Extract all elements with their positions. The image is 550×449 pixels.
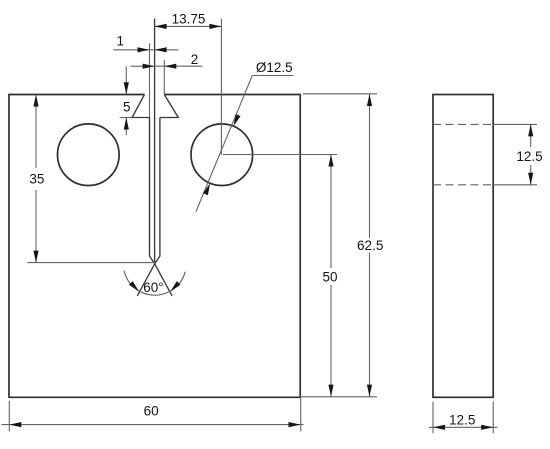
svg-text:60°: 60° (143, 280, 163, 295)
svg-text:5: 5 (123, 100, 131, 115)
svg-text:50: 50 (322, 270, 337, 285)
svg-text:35: 35 (29, 172, 44, 187)
svg-text:12.5: 12.5 (516, 149, 542, 164)
svg-text:1: 1 (116, 34, 124, 49)
svg-text:62.5: 62.5 (357, 238, 383, 253)
svg-text:13.75: 13.75 (172, 11, 206, 26)
svg-text:12.5: 12.5 (449, 413, 475, 428)
svg-text:Ø12.5: Ø12.5 (256, 60, 293, 75)
svg-text:60: 60 (144, 403, 159, 418)
svg-text:2: 2 (191, 52, 199, 67)
